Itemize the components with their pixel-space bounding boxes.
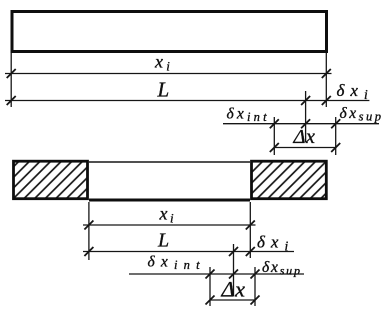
svg-text:L: L: [157, 78, 170, 102]
extension line left edge of bar: [10, 53, 12, 107]
extension line lower bound delta-x_int (bottom figure): [209, 267, 211, 306]
label L (bottom figure): [157, 230, 169, 252]
extension line upper bound delta-x_sup (top figure): [335, 117, 337, 155]
label delta-x_int (top figure): [227, 106, 270, 125]
bar (top figure): [12, 12, 327, 52]
extension line at L end (top figure): [305, 91, 307, 142]
svg-text:Δx: Δx: [293, 126, 316, 148]
label delta-x_sup (bottom figure): [262, 259, 302, 278]
dimension line x_i (bottom figure): [83, 221, 256, 230]
extension line hole left edge (bottom figure): [88, 202, 90, 260]
label delta-x_int (bottom figure): [148, 254, 206, 273]
left hatched block (bottom figure): [14, 161, 88, 199]
dimension line Delta-x (bottom figure): [206, 296, 260, 305]
right hatched block (bottom figure): [252, 161, 327, 199]
extension line lower bound delta-x_int (top figure): [273, 117, 275, 155]
slot far edge line (thin, across gap): [89, 161, 250, 163]
base bottom edge across gap (bottom figure): [89, 199, 250, 202]
label x_i (top figure): [154, 52, 173, 74]
label Delta-x (top figure): [293, 126, 316, 148]
label delta-x_i (top figure): [337, 81, 374, 102]
dimension line L with leader for delta-x_i (bottom figure): [83, 247, 294, 256]
label Delta-x (bottom figure): [221, 277, 246, 302]
svg-text:L: L: [157, 230, 169, 252]
label L (top figure): [157, 78, 170, 102]
leader line delta-x_int / delta-x_sup (top figure): [223, 119, 379, 128]
extension line at L end (bottom figure): [233, 244, 235, 296]
extension line upper bound delta-x_sup (bottom figure): [254, 267, 256, 306]
svg-text:Δx: Δx: [221, 277, 246, 302]
label x_i (bottom figure): [159, 204, 177, 226]
leader line delta-x_int / delta-x_sup (bottom figure): [129, 270, 304, 279]
dimension line x_i (top figure): [5, 69, 332, 78]
dimension line L with leader for delta-x_i (top figure): [5, 96, 369, 105]
dimension line Delta-x (top figure): [270, 143, 340, 152]
label delta-x_sup (top figure): [340, 105, 384, 124]
extension line hole right edge (bottom figure): [249, 202, 251, 258]
extension line right edge of bar: [325, 53, 327, 107]
label delta-x_i (bottom figure): [257, 233, 294, 254]
